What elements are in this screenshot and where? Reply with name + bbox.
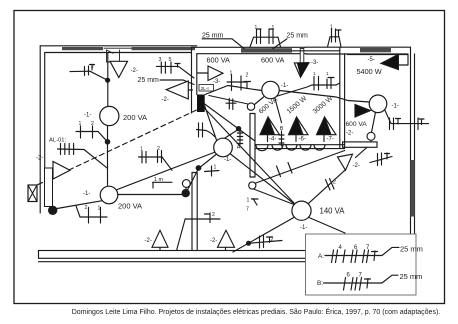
ceiling light C2 200VA xyxy=(100,186,118,204)
switch T1 xyxy=(110,61,128,77)
wire s3 to kitchen corner with ticks xyxy=(255,151,345,184)
pointer 25mm second xyxy=(273,39,287,49)
wire C5 to T5 apex xyxy=(309,170,345,203)
svg-text:-4-: -4- xyxy=(269,137,276,143)
kitchen inner vertical wall xyxy=(250,114,255,178)
pointer 25mm to kitchen hatch xyxy=(202,39,244,49)
window hatch top-left 2 xyxy=(132,47,195,50)
riser ticks above top wall right xyxy=(328,37,342,47)
wire T4 to wall xyxy=(188,89,192,91)
tick bracket circuits 1 2 mid xyxy=(139,151,173,171)
tick bracket below d1 wire xyxy=(76,206,107,223)
svg-text:-1-: -1- xyxy=(224,157,231,163)
QD label box 2L-I xyxy=(199,85,214,92)
svg-text:1: 1 xyxy=(214,165,217,171)
svg-text:7: 7 xyxy=(246,207,249,213)
wire C2 to C4 xyxy=(116,152,215,190)
svg-text:Domingos Leite Lima Filho. Pro: Domingos Leite Lima Filho. Projetos de i… xyxy=(72,307,441,316)
interior divider wall xyxy=(192,173,197,254)
ramp to bottom wall xyxy=(175,220,186,259)
svg-text:-3-: -3- xyxy=(213,79,220,85)
svg-text:-1-: -1- xyxy=(300,225,307,231)
tick label 1 7 xyxy=(252,199,259,206)
window hatch kitchen xyxy=(241,48,292,52)
entrance door rect xyxy=(45,168,53,207)
svg-text:2: 2 xyxy=(85,205,88,211)
svg-text:-1-: -1- xyxy=(84,113,91,119)
svg-text:1: 1 xyxy=(313,71,316,76)
outlet F1 half-filled xyxy=(294,63,309,78)
tick group below sink bar xyxy=(370,153,392,166)
legend box xyxy=(306,234,417,295)
junction box d1 xyxy=(48,206,57,215)
junction d2 xyxy=(182,189,190,197)
legend row B wire xyxy=(324,275,399,283)
svg-text:25 mm: 25 mm xyxy=(138,77,160,84)
wire bar to T5 xyxy=(356,147,368,157)
svg-text:140 VA: 140 VA xyxy=(320,207,346,216)
switch T7 xyxy=(218,230,235,247)
switch button s3 xyxy=(249,182,256,189)
sink bar right room xyxy=(343,142,377,147)
tick bracket circuits 1 2 upper xyxy=(76,126,108,142)
wire C3 to C6 xyxy=(280,91,370,103)
wire QD to counter corner xyxy=(205,104,255,141)
ceiling light C6 600VA xyxy=(369,95,387,113)
svg-text:-7-: -7- xyxy=(327,137,334,143)
svg-text:A: A xyxy=(237,145,241,151)
svg-text:-2-: -2- xyxy=(145,238,152,244)
wire QD to C4 xyxy=(205,106,217,140)
wire d1 to C2 xyxy=(57,201,102,209)
window hatch top-left 1 xyxy=(62,47,103,50)
counter scallop arcs xyxy=(256,145,325,151)
switch drop wire wall to C1 xyxy=(107,53,109,107)
legend row A wire xyxy=(325,247,399,255)
svg-text:A:: A: xyxy=(318,253,324,260)
switch T2 xyxy=(53,162,70,180)
svg-text:-6-: -6- xyxy=(299,137,306,143)
svg-text:2: 2 xyxy=(91,64,94,70)
wire T7 stem xyxy=(225,247,227,250)
diagonal load labels xyxy=(258,95,335,116)
wire s3 to C5 xyxy=(254,189,295,205)
door stub kitchen right xyxy=(300,49,304,64)
top wall right inner xyxy=(292,51,408,54)
svg-text:-2-: -2- xyxy=(210,238,217,244)
svg-text:1: 1 xyxy=(98,206,101,212)
svg-text:1: 1 xyxy=(330,25,333,31)
node d4 xyxy=(246,241,251,246)
svg-text:1: 1 xyxy=(326,71,329,76)
svg-text:AL-01:: AL-01: xyxy=(49,138,66,144)
svg-text:600 VA: 600 VA xyxy=(346,121,368,128)
tick on s1 wire xyxy=(226,99,236,110)
wire C3 to node B xyxy=(275,99,282,123)
svg-text:B: B xyxy=(280,126,284,132)
bottom low wall bar xyxy=(39,251,307,259)
switch T4 xyxy=(166,81,188,99)
svg-text:2: 2 xyxy=(246,73,249,79)
riser B ladder xyxy=(279,131,284,146)
wire C4 to C5 xyxy=(231,154,296,205)
svg-text:25 mm: 25 mm xyxy=(400,272,423,281)
svg-text:-2-: -2- xyxy=(353,163,360,169)
kitchen tick group 3 5 xyxy=(156,62,208,78)
top wall left inner line xyxy=(45,52,191,54)
svg-text:1: 1 xyxy=(79,121,82,127)
tick circuit 2 on divider wire xyxy=(205,213,211,223)
right outer wall xyxy=(411,47,415,234)
svg-text:B:: B: xyxy=(317,280,323,287)
switch T6 xyxy=(152,230,168,247)
riser ticks above top wall center xyxy=(250,37,281,47)
node A junction dot xyxy=(236,126,241,131)
wire C6 to s4 xyxy=(372,112,376,132)
tick bracket below QD xyxy=(197,123,215,137)
wire chain d2 d3 C4 xyxy=(187,155,216,192)
wire to switch s1 xyxy=(209,96,248,105)
window hatch right wall xyxy=(410,160,414,217)
distribution board QD xyxy=(197,95,205,113)
svg-text:1: 1 xyxy=(255,25,258,31)
ceiling light C1 200VA xyxy=(100,106,119,125)
counter outlet H3 3000W xyxy=(317,117,332,135)
top wall left outer line xyxy=(40,45,197,47)
wire C1 to C2 vertical xyxy=(107,126,109,186)
wire QD to C5 xyxy=(205,109,294,204)
svg-text:-5-: -5- xyxy=(368,57,375,63)
5400W room inner outline xyxy=(348,55,409,65)
outlet F3 filled xyxy=(355,105,371,118)
svg-text:-2-: -2- xyxy=(346,131,353,137)
window hatch 5400W room xyxy=(360,48,391,52)
wire C3 to s1 xyxy=(255,97,264,105)
junction d3 xyxy=(196,165,202,171)
wire d4 ticks circuit 2 xyxy=(249,236,283,249)
wire s2 to d2 xyxy=(185,187,187,189)
svg-text:600 VA: 600 VA xyxy=(261,56,285,65)
svg-text:1 m: 1 m xyxy=(154,177,163,183)
svg-text:2L-I: 2L-I xyxy=(201,86,209,92)
top wall right outer xyxy=(306,46,411,48)
junction dot on switch drop xyxy=(105,78,110,83)
svg-text:-1-: -1- xyxy=(392,104,399,110)
svg-text:5400 W: 5400 W xyxy=(357,67,382,76)
svg-text:1: 1 xyxy=(272,25,275,31)
svg-text:1: 1 xyxy=(247,198,250,204)
wire F1 to wall with ticks xyxy=(278,83,340,96)
svg-text:2: 2 xyxy=(91,121,94,127)
svg-text:-2-: -2- xyxy=(131,68,138,74)
wire C2 to d2 xyxy=(118,194,182,196)
wire C6 right with ticks xyxy=(385,110,429,124)
wire C5 to legend corner xyxy=(309,218,345,234)
ceiling light C3 600VA xyxy=(262,81,279,98)
outlet F2 filled 5400W xyxy=(381,54,398,69)
kitchen left wall xyxy=(192,47,197,113)
tick bracket circuits 1 2 on QD-C3 wire xyxy=(227,75,251,91)
meter box with X xyxy=(28,185,37,202)
tick circuit 2 on C5-T5 wire xyxy=(326,179,335,191)
kitchen counter wall xyxy=(255,145,345,149)
wire s4 to sink bar xyxy=(370,140,372,142)
bottom low wall second line xyxy=(39,261,307,263)
left wall outer xyxy=(39,46,41,213)
svg-text:-3-: -3- xyxy=(311,60,318,66)
switch T3 xyxy=(208,66,223,81)
dashed feed QD to meter box xyxy=(37,107,204,186)
svg-text:-1-: -1- xyxy=(83,191,90,197)
tick bracket circuit 1 near C4 xyxy=(205,166,220,176)
dimension 1m mark xyxy=(153,182,173,188)
svg-text:2: 2 xyxy=(271,237,274,243)
wire QD to C3 xyxy=(205,86,262,95)
svg-text:200 VA: 200 VA xyxy=(118,202,142,211)
switch button s4 xyxy=(367,132,375,140)
pointer 25mm to QD xyxy=(160,80,194,85)
wire C5 to bottom wall xyxy=(233,217,295,252)
svg-text:2: 2 xyxy=(212,212,215,218)
wire C4 to node A xyxy=(224,130,237,139)
svg-text:1: 1 xyxy=(230,71,233,77)
ceiling light C5 140VA xyxy=(292,201,311,220)
svg-text:2: 2 xyxy=(333,180,336,186)
svg-text:200 VA: 200 VA xyxy=(123,113,147,122)
wire F2 to wall xyxy=(398,64,408,66)
svg-text:25 mm: 25 mm xyxy=(202,33,224,40)
switch T5 xyxy=(338,154,353,170)
svg-text:1: 1 xyxy=(140,147,143,153)
switch button s2 xyxy=(182,180,190,188)
svg-text:25 mm: 25 mm xyxy=(400,245,423,254)
counter outlet H2 1500W xyxy=(289,117,304,135)
top wall center outer xyxy=(192,46,307,48)
svg-text:-2-: -2- xyxy=(162,97,169,103)
svg-text:600 VA: 600 VA xyxy=(207,56,231,65)
left wall inner xyxy=(44,52,46,202)
ceiling light C4 hall xyxy=(214,138,233,157)
counter outlet H1 600VA xyxy=(260,117,275,135)
wire T6 stem xyxy=(159,247,161,250)
svg-text:-1-: -1- xyxy=(281,83,288,89)
junction dot J1 xyxy=(105,139,111,145)
switch button s1 xyxy=(247,103,254,110)
wire crossing divider wall xyxy=(185,218,220,220)
door lintel strip xyxy=(104,47,132,49)
door frame box xyxy=(107,50,120,62)
svg-text:2: 2 xyxy=(157,146,160,152)
svg-text:25 mm: 25 mm xyxy=(287,33,309,40)
svg-text:-2-: -2- xyxy=(36,156,43,162)
wall between kitchen and right rooms xyxy=(340,47,345,148)
riser A ladder xyxy=(237,130,242,145)
feed AL-01 ticks xyxy=(58,149,108,168)
tick bracket circuit 2 room1 top xyxy=(70,71,108,80)
top wall center inner xyxy=(197,53,306,55)
